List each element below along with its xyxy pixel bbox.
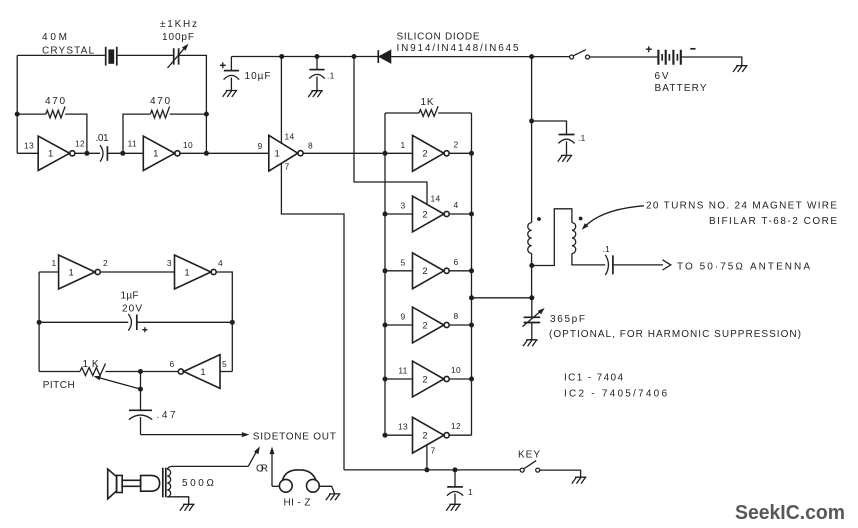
wire leader arrow to secondary xyxy=(582,206,644,230)
wire Vcc to IC2 pin14 xyxy=(354,57,427,205)
svg-text:KEY: KEY xyxy=(518,450,541,461)
wire input row 4 xyxy=(385,324,413,326)
svg-text:14: 14 xyxy=(431,194,441,204)
svg-text:1: 1 xyxy=(468,487,473,497)
wire bank left bus xyxy=(384,113,386,435)
op-amp inverter U1D pins 1-2 xyxy=(59,255,101,289)
resistor 470 (second feedback) xyxy=(123,106,206,153)
svg-text:.1: .1 xyxy=(603,244,611,254)
transformer T2 winding 500 ohm xyxy=(167,469,170,497)
ground below key cap xyxy=(446,504,461,510)
node Vcc IC2 pin14 tap xyxy=(352,54,357,59)
wire node down to trimmer xyxy=(531,298,533,318)
svg-text:7: 7 xyxy=(431,446,436,456)
node drive line right xyxy=(529,295,534,300)
node signal input junction xyxy=(383,151,388,156)
svg-text:1: 1 xyxy=(48,149,53,160)
diode D1 silicon xyxy=(378,50,391,63)
ground below .1 xyxy=(308,91,323,97)
op-amp inverter U1B pins 11-10 xyxy=(143,136,180,170)
node Vcc pin14 tap xyxy=(279,54,284,59)
node right bus junction xyxy=(469,151,474,156)
label SILICON DIODE xyxy=(397,32,520,55)
svg-text:500Ω: 500Ω xyxy=(182,478,215,489)
wire output row 4 xyxy=(449,324,471,326)
wire battery to ground xyxy=(681,57,742,65)
ground below supply .1 xyxy=(558,155,573,161)
op-amp inverter U1E pins 3-4 xyxy=(175,255,217,289)
capacitor .1 antenna coupling xyxy=(605,255,613,275)
svg-text:20V: 20V xyxy=(122,304,143,315)
wire Vcc rail xyxy=(231,56,378,58)
node inv2 input junction xyxy=(120,151,125,156)
node right bus junction xyxy=(469,212,474,217)
svg-text:(OPTIONAL, FOR HARMONIC SUPPRE: (OPTIONAL, FOR HARMONIC SUPPRESSION) xyxy=(549,329,802,340)
svg-text:2: 2 xyxy=(422,209,427,220)
node wiper junction xyxy=(138,387,143,392)
op-amp inverter U1C pins 9-8 xyxy=(269,135,303,171)
wire left vertical of oscillator xyxy=(16,55,18,153)
svg-text:2: 2 xyxy=(422,320,427,331)
wire input row 2 xyxy=(385,213,413,215)
svg-text:5: 5 xyxy=(401,257,406,267)
node left bus junction xyxy=(383,268,388,273)
svg-text:2: 2 xyxy=(422,431,427,442)
wire OR diagonal arrow xyxy=(248,446,260,466)
svg-text:IC1 - 7404: IC1 - 7404 xyxy=(564,373,624,384)
wire inv2 output to inv3 input xyxy=(180,152,269,154)
node supply branch down xyxy=(529,54,534,59)
node phase dot secondary xyxy=(579,217,583,221)
svg-text:4: 4 xyxy=(454,200,459,210)
wire output row 1 xyxy=(449,152,471,154)
svg-text:.1: .1 xyxy=(578,133,586,143)
svg-text:OR: OR xyxy=(256,464,269,475)
op-amp inverter U1F pins 6-5 (points left) xyxy=(178,355,220,389)
wire headphone vertical arrow xyxy=(270,447,275,487)
wire crystal top-left horizontal xyxy=(17,54,105,56)
switch S2 KEY xyxy=(520,461,540,473)
svg-text:IC2 - 7405/7406: IC2 - 7405/7406 xyxy=(564,389,668,400)
node drive line left xyxy=(469,295,474,300)
svg-text:8: 8 xyxy=(454,311,459,321)
wire input row 3 xyxy=(385,270,413,272)
svg-text:3: 3 xyxy=(167,258,172,268)
svg-text:PITCH: PITCH xyxy=(43,380,76,391)
svg-text:IN914/IN4148/IN645: IN914/IN4148/IN645 xyxy=(397,43,520,54)
trimmer capacitor 100pF xyxy=(168,44,189,68)
node pin10 junction xyxy=(204,151,209,156)
wire pin7 of IC1 down and over to ground rail xyxy=(281,163,344,470)
crystal Y1 40M xyxy=(106,47,117,66)
potentiometer 1K PITCH xyxy=(39,364,178,376)
node mid rail right xyxy=(230,320,235,325)
inductor T1 secondary winding xyxy=(572,223,576,254)
node inv1 output junction xyxy=(84,151,89,156)
wire IC2 pin7 to ground rail xyxy=(426,445,428,470)
resistor 470 (first feedback) xyxy=(17,106,87,153)
svg-text:2: 2 xyxy=(422,149,427,160)
node junction left feedback xyxy=(15,112,20,117)
node left bus junction xyxy=(383,377,388,382)
svg-text:1: 1 xyxy=(184,267,189,278)
capacitor .47 xyxy=(129,372,152,435)
svg-text:12: 12 xyxy=(451,421,461,431)
node right bus junction xyxy=(469,323,474,328)
svg-text:10µF: 10µF xyxy=(245,71,272,82)
svg-text:1: 1 xyxy=(275,149,280,160)
ground headphones xyxy=(326,494,341,500)
wire T2 top to OR selector xyxy=(167,466,248,469)
node mid rail left xyxy=(37,320,42,325)
svg-text:1: 1 xyxy=(401,140,406,150)
svg-text:2: 2 xyxy=(454,139,459,149)
wire input row 6 xyxy=(385,434,413,436)
svg-text:13: 13 xyxy=(398,422,408,432)
label 6V BATTERY xyxy=(655,71,708,94)
node left bus junction xyxy=(383,212,388,217)
svg-text:2: 2 xyxy=(422,374,427,385)
label 20 TURNS NO. 24 MAGNET WIRE / BIFILAR T-68-2 CORE xyxy=(646,201,838,228)
op-amp inverter U2 gate 2 pins 3-4 xyxy=(413,196,450,232)
wire trimmer to right corner, down to feedback xyxy=(179,55,207,153)
svg-text:1K: 1K xyxy=(421,97,435,108)
headphones HI-Z xyxy=(279,470,319,492)
svg-text:1K: 1K xyxy=(83,359,100,370)
wire switch to battery xyxy=(590,56,659,58)
wire bank output drive line xyxy=(472,297,532,299)
ground key xyxy=(572,477,587,483)
wire diode to switch xyxy=(391,56,570,58)
wire input pin13 xyxy=(17,152,38,154)
capacitor 10uF electrolytic xyxy=(220,57,239,91)
svg-text:470: 470 xyxy=(150,96,171,107)
svg-text:.47: .47 xyxy=(157,410,177,421)
svg-text:11: 11 xyxy=(398,366,407,376)
svg-text:9: 9 xyxy=(401,312,406,322)
node pot tap top xyxy=(138,369,143,374)
ground battery xyxy=(733,66,748,72)
node .1 tap xyxy=(315,54,320,59)
wire supply vertical down to transformer xyxy=(531,57,533,223)
label IC1-7404 IC2-7405/7406 xyxy=(564,373,668,400)
inductor T1 primary winding xyxy=(528,223,532,254)
wire input inverter A xyxy=(39,271,59,273)
svg-text:365pF: 365pF xyxy=(550,314,586,325)
wire bifilar link bottom-left up and over xyxy=(532,209,572,266)
node .1 branch xyxy=(529,119,534,124)
wire sidetone left vertical xyxy=(38,272,40,372)
op-amp inverter U1A pins 13-12 xyxy=(38,136,75,170)
svg-text:8: 8 xyxy=(308,141,313,151)
svg-text:5: 5 xyxy=(222,359,227,369)
svg-text:1µF: 1µF xyxy=(121,291,140,302)
capacitor 1 key bypass xyxy=(447,470,463,504)
op-amp inverter U2 gate 5 pins 11-10 xyxy=(413,361,450,397)
svg-text:10: 10 xyxy=(451,365,461,375)
node right bus junction xyxy=(469,377,474,382)
svg-text:TO 50·75Ω ANTENNA: TO 50·75Ω ANTENNA xyxy=(677,262,811,273)
svg-text:6: 6 xyxy=(454,257,459,267)
node transformer bottom junction xyxy=(529,263,534,268)
capacitor .1 bypass (rail) xyxy=(309,57,325,91)
wire antenna output arrow xyxy=(613,260,671,270)
wire input row 5 xyxy=(385,378,413,380)
svg-text:±1KHz: ±1KHz xyxy=(160,19,198,30)
svg-text:1: 1 xyxy=(200,367,205,378)
wire A to B xyxy=(100,271,174,273)
svg-text:13: 13 xyxy=(24,141,34,151)
wire sidetone out arrow xyxy=(141,432,250,437)
op-amp inverter U2 gate 6 pins 13-12 xyxy=(413,417,450,453)
svg-text:SIDETONE OUT: SIDETONE OUT xyxy=(253,432,337,443)
node pin7 junction xyxy=(424,467,429,472)
wire output row 6 xyxy=(449,434,471,436)
wire T2 bottom to ground xyxy=(167,497,189,504)
label - battery xyxy=(690,48,695,50)
node feedback right junction xyxy=(204,112,209,117)
wire pin14 of IC1 up to Vcc rail xyxy=(280,57,282,144)
svg-text:12: 12 xyxy=(75,139,85,149)
wire output row 5 xyxy=(449,378,471,380)
wire input row 1 xyxy=(385,152,413,154)
transformer T2 core xyxy=(163,468,166,498)
svg-text:SILICON DIODE: SILICON DIODE xyxy=(397,32,481,43)
node left bus junction xyxy=(383,323,388,328)
capacitor .01 coupling xyxy=(100,145,107,162)
svg-text:BIFILAR T-68-2 CORE: BIFILAR T-68-2 CORE xyxy=(709,216,838,227)
svg-text:9: 9 xyxy=(258,141,263,151)
op-amp inverter U2 gate 3 pins 5-6 xyxy=(413,253,450,289)
ground below trimmer xyxy=(523,340,538,346)
node right bus junction xyxy=(469,268,474,273)
wire primary bottom to output node xyxy=(531,253,533,297)
wire headphone left lead xyxy=(272,485,279,487)
wire trimmer to ground xyxy=(531,323,533,340)
wire crystal to trimmer xyxy=(117,54,173,56)
wire ground rail bottom xyxy=(344,469,520,471)
wire key to ground xyxy=(540,470,581,477)
svg-text:40M: 40M xyxy=(42,32,68,43)
label + battery xyxy=(646,46,652,52)
wire B output down right vertical xyxy=(216,272,232,372)
svg-text:20 TURNS NO. 24 MAGNET WIRE: 20 TURNS NO. 24 MAGNET WIRE xyxy=(646,201,838,212)
svg-text:BATTERY: BATTERY xyxy=(655,83,708,94)
svg-text:2: 2 xyxy=(422,266,427,277)
op-amp inverter U2 gate 1 pins 1-2 xyxy=(413,135,450,171)
wire output row 3 xyxy=(449,270,471,272)
svg-text:10: 10 xyxy=(183,140,193,150)
capacitor .1 bypass (supply) xyxy=(532,121,575,155)
capacitor 1uF 20V xyxy=(39,314,232,332)
node bypass cap junction xyxy=(453,467,458,472)
node left bus junction xyxy=(383,433,388,438)
svg-text:3: 3 xyxy=(401,201,406,211)
svg-text:1: 1 xyxy=(68,267,73,278)
svg-text:.1: .1 xyxy=(327,71,335,81)
svg-text:HI - Z: HI - Z xyxy=(284,498,312,509)
label 1uF 20V xyxy=(121,291,144,315)
svg-text:SeekIC.com: SeekIC.com xyxy=(735,502,845,524)
svg-text:7: 7 xyxy=(285,162,290,172)
trimmer capacitor 365pF xyxy=(523,308,545,327)
svg-text:14: 14 xyxy=(285,132,295,142)
wiper arrow of pot xyxy=(94,376,141,389)
svg-text:2: 2 xyxy=(103,258,108,268)
wire headphone right lead to ground xyxy=(319,486,334,493)
svg-text:1: 1 xyxy=(52,258,57,268)
ground T2 xyxy=(180,504,195,510)
node phase dot primary xyxy=(537,217,541,221)
switch S1 power xyxy=(570,50,590,59)
svg-text:6: 6 xyxy=(170,359,175,369)
wire cap to inverter2 input xyxy=(107,152,143,154)
resistor 1K bank feedback xyxy=(385,106,472,116)
wire bank right bus xyxy=(471,113,473,435)
wire inv3 output to gate bank xyxy=(303,152,385,154)
svg-text:100pF: 100pF xyxy=(162,32,195,43)
svg-text:6V: 6V xyxy=(655,71,670,82)
speaker LS1 xyxy=(108,469,160,499)
wire inv1 output xyxy=(75,152,100,154)
battery BT1 6V xyxy=(658,50,680,65)
svg-text:1: 1 xyxy=(153,149,158,160)
label ±1KHz 100pF xyxy=(160,19,198,43)
wire invC input right side xyxy=(220,371,232,373)
op-amp inverter U2 gate 4 pins 9-8 xyxy=(413,307,450,343)
svg-text:CRYSTAL: CRYSTAL xyxy=(42,46,95,57)
svg-text:4: 4 xyxy=(218,258,223,268)
ground below 10uF xyxy=(223,91,238,97)
svg-text:.01: .01 xyxy=(96,133,110,144)
label 40M CRYSTAL xyxy=(42,32,95,57)
svg-text:470: 470 xyxy=(45,96,66,107)
wire output row 2 xyxy=(449,213,471,215)
svg-text:11: 11 xyxy=(128,139,137,149)
wire secondary to antenna cap xyxy=(572,253,605,265)
